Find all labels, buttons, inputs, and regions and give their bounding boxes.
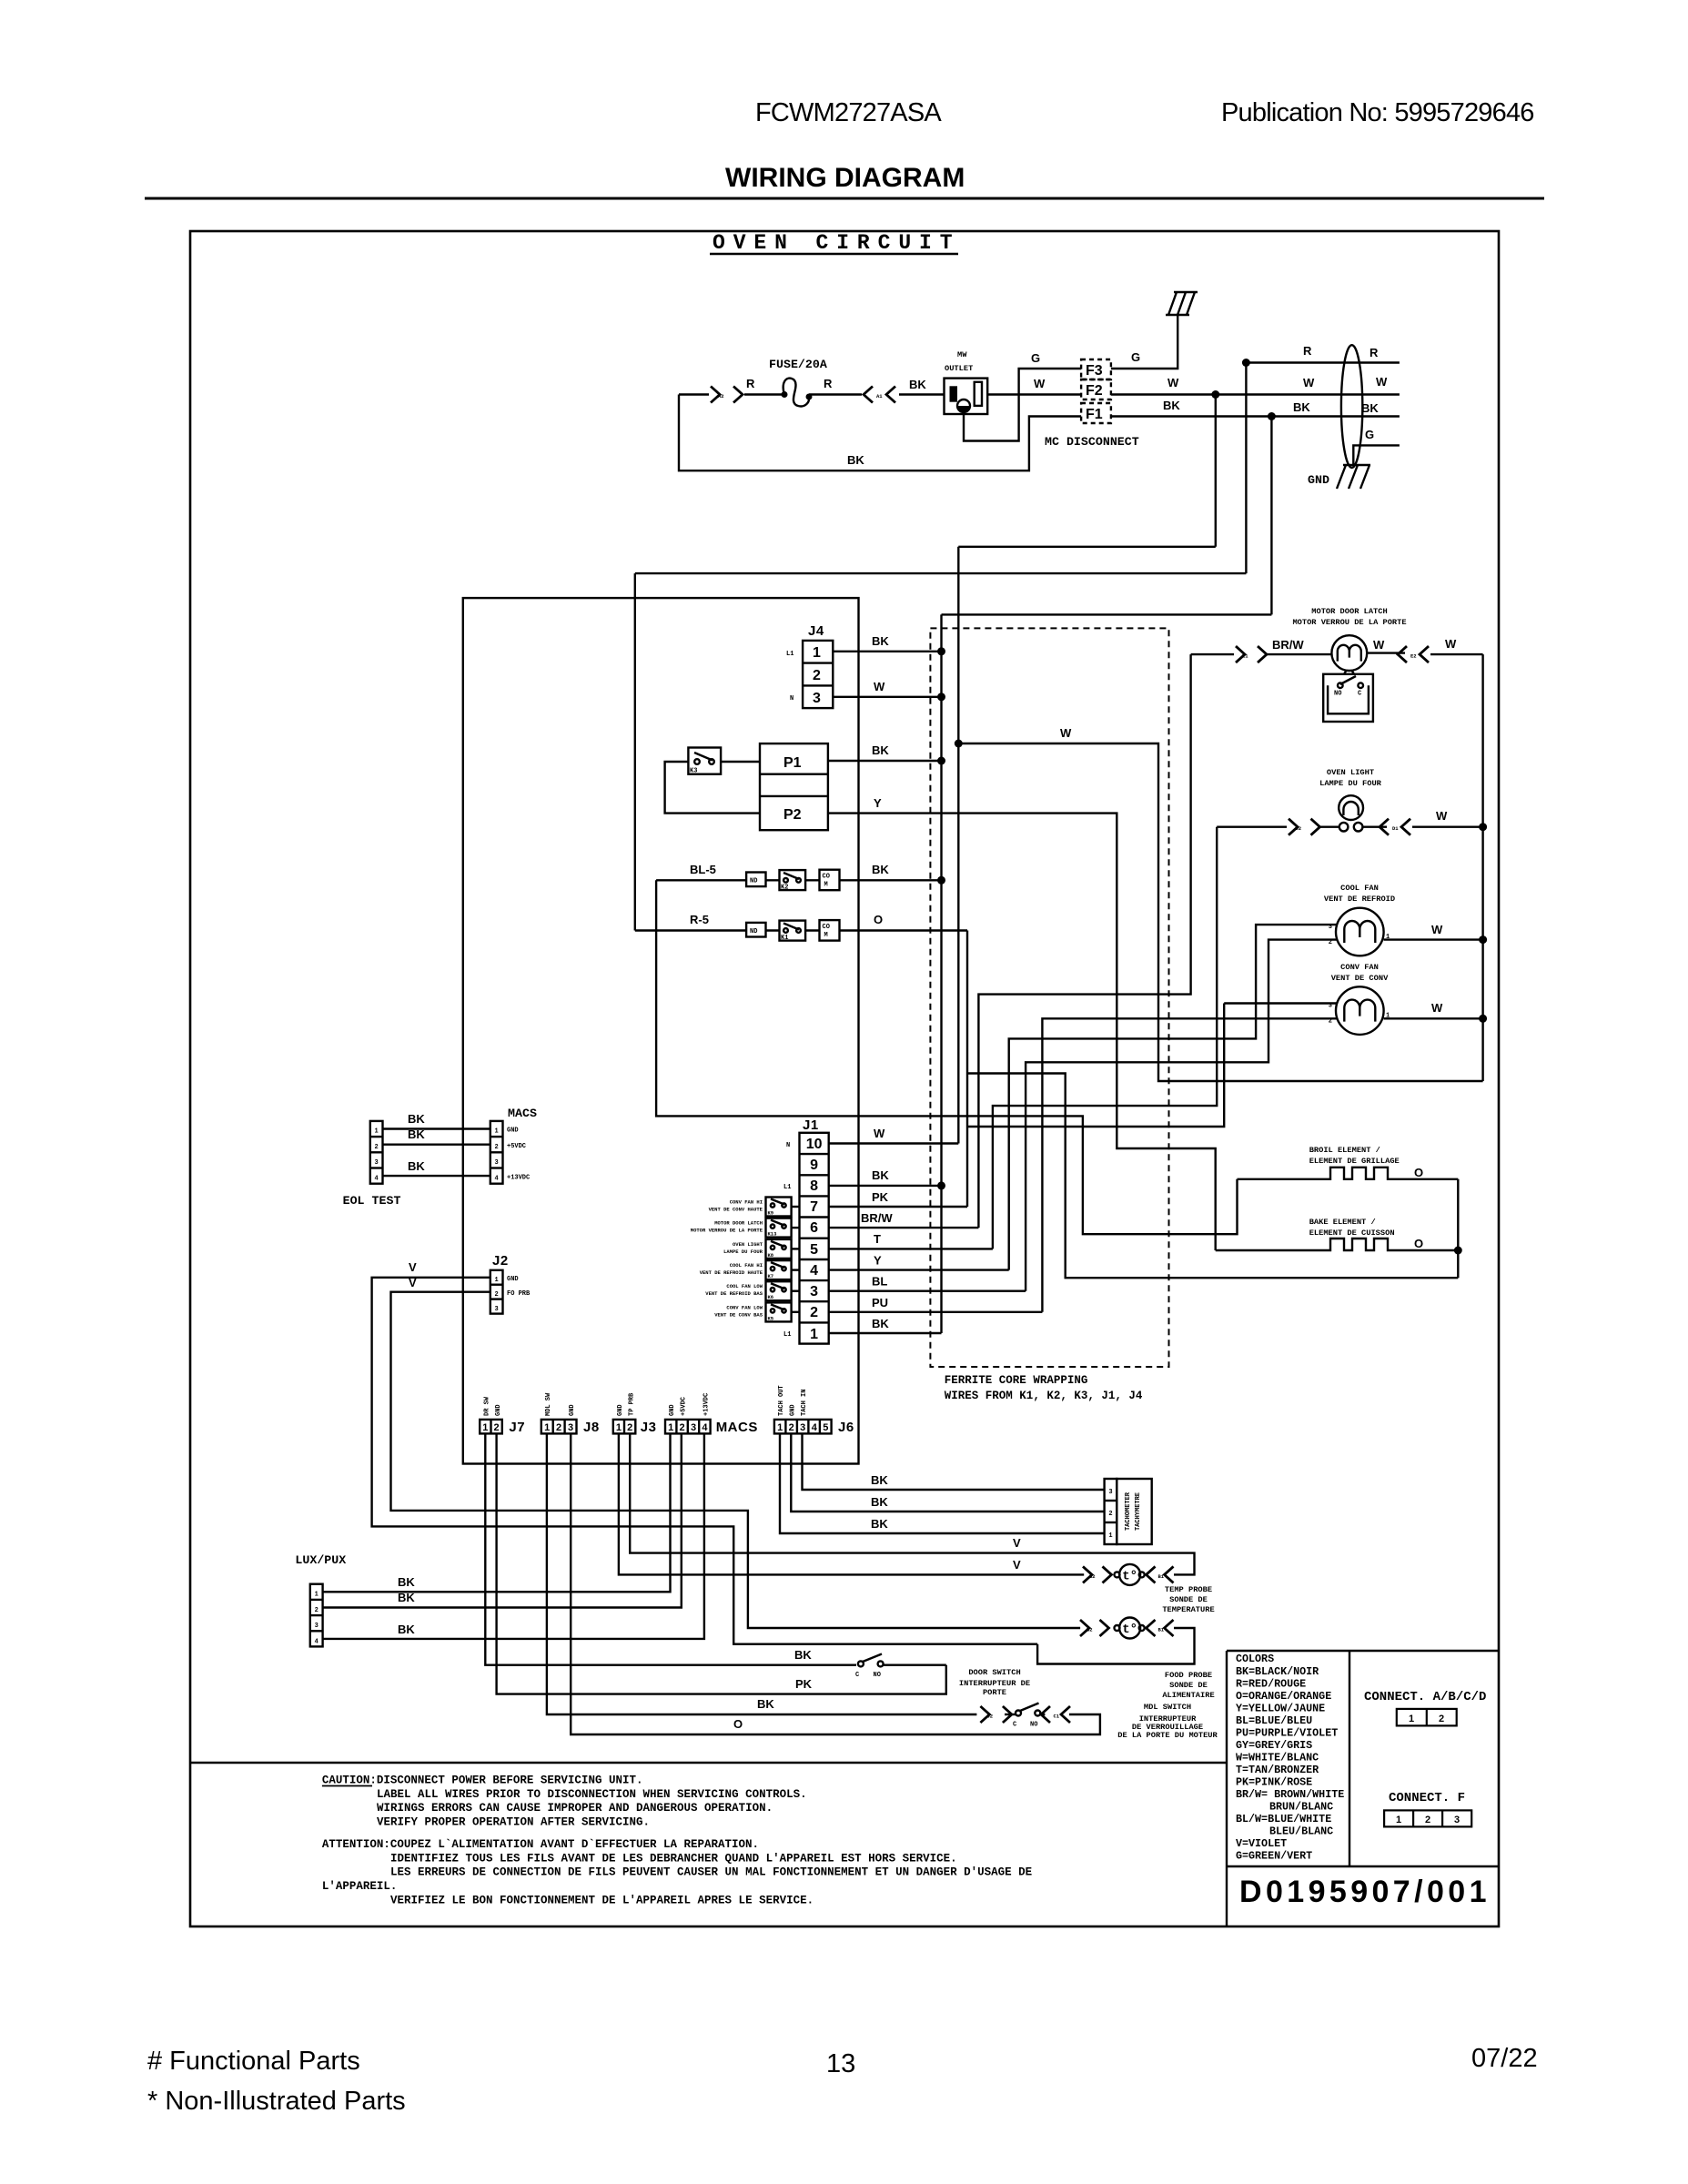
svg-text:BK: BK	[871, 1495, 888, 1509]
svg-text:J2: J2	[492, 1253, 509, 1269]
relay K5	[714, 1302, 799, 1321]
wire fuse to outlet	[809, 393, 945, 395]
svg-text:NO: NO	[1334, 691, 1341, 698]
wire LUX-1 BK	[323, 1433, 671, 1592]
svg-text:WIRES FROM K1, K2, K3, J1, J4: WIRES FROM K1, K2, K3, J1, J4	[945, 1390, 1143, 1402]
svg-text:2: 2	[1425, 1815, 1430, 1825]
svg-text:O=ORANGE/ORANGE: O=ORANGE/ORANGE	[1236, 1690, 1331, 1703]
wire R horizontal from MC	[635, 572, 1247, 574]
svg-text:VENT DE CONV: VENT DE CONV	[1331, 974, 1389, 983]
svg-text:BK: BK	[794, 1648, 812, 1662]
svg-text:GND: GND	[507, 1276, 519, 1283]
wire outlet to F2	[987, 393, 1081, 395]
svg-text:O: O	[1414, 1166, 1423, 1179]
wire PU riser to conv fan 2	[1042, 1018, 1336, 1312]
svg-text:BL: BL	[872, 1275, 887, 1289]
svg-text:C1: C1	[1054, 1714, 1060, 1720]
svg-text:VERIFIEZ LE BON FONCTIONNEMENT: VERIFIEZ LE BON FONCTIONNEMENT DE L'APPA…	[390, 1895, 814, 1907]
bake element	[1216, 1239, 1459, 1250]
chassis ground top	[1166, 292, 1198, 315]
svg-text:VENT DE CONV HAUTE: VENT DE CONV HAUTE	[709, 1207, 763, 1213]
wire J6-3 tach	[803, 1433, 1105, 1490]
svg-text:MOTOR DOOR LATCH: MOTOR DOOR LATCH	[1311, 607, 1387, 616]
wire BK return bottom	[679, 395, 1081, 471]
wire LUX-4 BK	[323, 1433, 704, 1639]
svg-text:N: N	[790, 695, 793, 703]
connector LUX/PUX	[310, 1584, 323, 1647]
wire outlet ground loop to F3	[964, 369, 1081, 441]
MDL switch	[1005, 1704, 1045, 1729]
junction conv fan bus	[1479, 1015, 1487, 1023]
svg-text:C2: C2	[987, 1714, 994, 1720]
junction J4-1	[937, 647, 945, 655]
wire R vertical to R-5	[634, 573, 636, 930]
svg-text:TEMP PROBE: TEMP PROBE	[1165, 1585, 1212, 1594]
svg-text:TP PRB: TP PRB	[628, 1392, 635, 1416]
svg-text:ELEMENT DE CUISSON: ELEMENT DE CUISSON	[1309, 1228, 1395, 1238]
svg-text:TACHYMETRE: TACHYMETRE	[1135, 1492, 1142, 1531]
svg-text:K6: K6	[768, 1294, 774, 1300]
svg-text:FUSE/20A: FUSE/20A	[769, 358, 827, 371]
svg-text:DE LA PORTE DU MOTEUR: DE LA PORTE DU MOTEUR	[1117, 1731, 1218, 1740]
svg-text:LAMPE DU FOUR: LAMPE DU FOUR	[1319, 779, 1382, 788]
svg-text:GND: GND	[790, 1404, 797, 1416]
svg-text:5: 5	[810, 1242, 818, 1258]
oven circuit underline	[710, 253, 958, 255]
svg-text:G=GREEN/VERT: G=GREEN/VERT	[1236, 1850, 1312, 1863]
svg-text:ND: ND	[750, 878, 757, 885]
svg-text:1: 1	[1396, 1815, 1401, 1825]
svg-text:LAMPE DU FOUR: LAMPE DU FOUR	[723, 1249, 763, 1255]
svg-text:PU=PURPLE/VIOLET: PU=PURPLE/VIOLET	[1236, 1727, 1338, 1740]
svg-text:A2: A2	[718, 393, 724, 399]
svg-text:BLEU/BLANC: BLEU/BLANC	[1269, 1825, 1333, 1838]
contact box NO	[746, 923, 765, 937]
svg-text:MACS: MACS	[716, 1420, 758, 1435]
tachometer box	[1117, 1479, 1151, 1544]
svg-text:BK: BK	[872, 634, 889, 648]
wire W node vertical	[957, 547, 959, 1144]
colors box internal divider	[1349, 1651, 1350, 1866]
svg-text:BK: BK	[872, 863, 889, 876]
broil element	[1238, 1168, 1459, 1179]
wire W horizontal from MC	[958, 546, 1216, 548]
fuse box F3	[1081, 359, 1111, 379]
wire W branch	[958, 743, 1482, 1081]
wire J1-2 PU	[829, 1311, 1043, 1313]
wire BK horizontal from MC	[942, 613, 1272, 615]
svg-text:+5VDC: +5VDC	[680, 1397, 687, 1416]
wire door switch NO side	[884, 1663, 946, 1665]
svg-text:CO: CO	[823, 924, 830, 931]
svg-text:4: 4	[374, 1176, 378, 1183]
svg-text:2: 2	[1329, 939, 1332, 946]
wire BL-5 row	[656, 879, 941, 881]
wire EOL row1 BK	[383, 1127, 490, 1129]
svg-text:PK: PK	[872, 1190, 889, 1204]
wire right W bus	[1481, 654, 1483, 1081]
contact box COM	[820, 870, 840, 891]
wire J6-1 tach	[780, 1433, 1105, 1533]
svg-text:1: 1	[544, 1422, 550, 1433]
svg-text:PK=PINK/ROSE: PK=PINK/ROSE	[1236, 1776, 1312, 1789]
SECTION: board	[463, 547, 1459, 1464]
wire R drop to board	[1245, 363, 1247, 574]
svg-text:OVEN LIGHT: OVEN LIGHT	[733, 1241, 763, 1248]
svg-text:+13VDC: +13VDC	[702, 1393, 710, 1416]
motor door latch motor	[1331, 635, 1367, 671]
SECTION: header	[145, 98, 1544, 2116]
svg-text:E1: E1	[1242, 653, 1248, 660]
svg-text:3: 3	[1108, 1489, 1112, 1496]
svg-text:W: W	[1034, 377, 1046, 390]
contact box NO	[746, 873, 765, 887]
connector J3	[613, 1420, 636, 1434]
wire J2-2 V	[391, 1292, 1081, 1628]
wire R	[1246, 361, 1400, 363]
wire K3 left loop to P2	[665, 762, 760, 814]
junction light bus	[1479, 823, 1487, 831]
chassis ground bottom	[1337, 465, 1370, 489]
wire W drop to board	[1215, 395, 1217, 547]
svg-text:7: 7	[810, 1199, 818, 1215]
svg-text:1: 1	[1108, 1532, 1112, 1540]
svg-text:PK: PK	[795, 1677, 813, 1691]
wire J1-10 W	[829, 1142, 959, 1144]
svg-text:BK: BK	[872, 743, 889, 757]
svg-text:W: W	[1167, 376, 1179, 389]
svg-text:N: N	[786, 1142, 790, 1149]
wire latch to E2	[1367, 653, 1482, 655]
wire light D1 to bus	[1362, 826, 1482, 828]
svg-text:L1: L1	[783, 1331, 791, 1339]
svg-text:2: 2	[374, 1144, 378, 1151]
relay K3 box	[688, 748, 721, 775]
svg-text:3: 3	[374, 1159, 378, 1167]
svg-text:2: 2	[494, 1291, 498, 1299]
wire BK drop to board	[1270, 417, 1272, 615]
svg-text:4: 4	[315, 1639, 318, 1646]
svg-text:J7: J7	[509, 1420, 525, 1435]
connector A1	[864, 387, 895, 403]
connector D1	[1380, 819, 1410, 835]
svg-text:MOTOR VERROU DE LA PORTE: MOTOR VERROU DE LA PORTE	[691, 1228, 763, 1234]
svg-text:BL/W=BLUE/WHITE: BL/W=BLUE/WHITE	[1236, 1813, 1331, 1825]
svg-text:LUX/PUX: LUX/PUX	[295, 1553, 346, 1567]
svg-text:L'APPAREIL.: L'APPAREIL.	[322, 1880, 398, 1893]
svg-text:OUTLET: OUTLET	[945, 364, 973, 373]
svg-text:LES ERREURS DE CONNECTION DE F: LES ERREURS DE CONNECTION DE FILS PEUVEN…	[390, 1866, 1032, 1879]
svg-text:COOL FAN LOW: COOL FAN LOW	[726, 1283, 763, 1289]
svg-text:MACS: MACS	[508, 1107, 537, 1120]
svg-text:O: O	[1414, 1237, 1423, 1250]
wire elements common right	[1457, 1179, 1459, 1278]
svg-text:BRUN/BLANC: BRUN/BLANC	[1269, 1801, 1333, 1814]
svg-text:FO PRB: FO PRB	[507, 1290, 531, 1298]
wire J2-1 V	[372, 1278, 1038, 1644]
wire BK from F1	[1111, 415, 1400, 417]
svg-text:V: V	[409, 1276, 417, 1289]
svg-text:O: O	[874, 913, 883, 926]
SECTION: legend	[322, 1653, 1491, 1909]
svg-text:13: 13	[826, 2049, 855, 2078]
svg-text:C: C	[1013, 1722, 1016, 1729]
svg-text:ALIMENTAIRE: ALIMENTAIRE	[1162, 1691, 1214, 1700]
svg-text:ELEMENT DE GRILLAGE: ELEMENT DE GRILLAGE	[1309, 1157, 1400, 1166]
svg-text:WIRING DIAGRAM: WIRING DIAGRAM	[725, 163, 965, 193]
svg-text:V: V	[409, 1260, 417, 1274]
svg-text:C: C	[855, 1672, 859, 1679]
svg-text:10: 10	[806, 1137, 823, 1152]
connector B1	[1147, 1566, 1174, 1582]
svg-text:GND: GND	[495, 1404, 502, 1416]
svg-text:1: 1	[813, 645, 821, 661]
svg-text:B1: B1	[1158, 1573, 1165, 1580]
svg-text:1: 1	[777, 1422, 783, 1433]
svg-text:8: 8	[810, 1178, 818, 1194]
svg-text:W: W	[1376, 375, 1388, 389]
outlet slot filled	[950, 386, 958, 401]
wire Y riser to cool fan 3	[1009, 925, 1338, 1270]
junction J1-8	[937, 1181, 945, 1189]
svg-text:WIRINGS ERRORS CAN CAUSE IMPRO: WIRINGS ERRORS CAN CAUSE IMPROPER AND DA…	[377, 1802, 773, 1815]
svg-text:BK: BK	[1293, 400, 1310, 414]
svg-text:3: 3	[691, 1422, 696, 1433]
svg-text:BK: BK	[398, 1575, 415, 1589]
svg-text:FERRITE CORE WRAPPING: FERRITE CORE WRAPPING	[945, 1374, 1088, 1387]
svg-text:J8: J8	[583, 1420, 600, 1435]
connect abcd pin box	[1397, 1709, 1457, 1726]
svg-text:3: 3	[810, 1284, 818, 1299]
relay K9	[709, 1198, 800, 1217]
connector J8	[541, 1420, 577, 1434]
svg-text:OVEN LIGHT: OVEN LIGHT	[1327, 768, 1374, 777]
wire J6-2 tach	[791, 1433, 1104, 1512]
wire A2 feed	[679, 393, 783, 395]
outer schematic frame	[190, 231, 1499, 1926]
svg-text:2: 2	[813, 668, 821, 683]
svg-text:GND: GND	[617, 1404, 624, 1416]
svg-text:BK: BK	[872, 1317, 889, 1330]
svg-text:L1: L1	[786, 651, 793, 658]
svg-text:COOL FAN HI: COOL FAN HI	[730, 1262, 763, 1269]
svg-text:V: V	[1013, 1558, 1021, 1572]
SECTION: right components	[691, 607, 1487, 1402]
temp probe	[1115, 1564, 1145, 1585]
svg-text:G: G	[1031, 351, 1040, 365]
svg-text:BK: BK	[1361, 401, 1379, 415]
svg-text:V: V	[1013, 1536, 1021, 1550]
relay K1	[780, 921, 806, 942]
wire BL-5 drop	[656, 880, 1237, 1234]
svg-text:T=TAN/BRONZER: T=TAN/BRONZER	[1236, 1764, 1319, 1776]
svg-text:CAUTION:DISCONNECT POWER BEFOR: CAUTION:DISCONNECT POWER BEFORE SERVICIN…	[322, 1774, 643, 1787]
svg-text:Y: Y	[874, 1254, 882, 1268]
svg-text:GY=GREY/GRIS: GY=GREY/GRIS	[1236, 1739, 1312, 1752]
connector B1 food	[1147, 1620, 1174, 1636]
MW outlet box	[945, 379, 988, 414]
connector D1	[1041, 1706, 1070, 1723]
svg-text:TACH IN: TACH IN	[801, 1390, 808, 1416]
svg-text:BK: BK	[1163, 399, 1180, 412]
svg-text:GND: GND	[569, 1404, 576, 1416]
svg-text:EOL TEST: EOL TEST	[343, 1194, 401, 1208]
fuse box F2	[1081, 379, 1111, 399]
wire J3-2 temp probe feed	[630, 1433, 1194, 1574]
svg-text:SONDE DE: SONDE DE	[1169, 1595, 1208, 1604]
svg-text:J1: J1	[803, 1117, 819, 1133]
svg-text:W: W	[1436, 809, 1448, 823]
svg-text:GND: GND	[507, 1127, 519, 1135]
wire J1-3 BL	[829, 1289, 1026, 1291]
svg-text:BK: BK	[871, 1517, 888, 1531]
wire conv fan 3 feed	[1224, 1002, 1338, 1004]
svg-text:+5VDC: +5VDC	[507, 1143, 526, 1150]
svg-text:1: 1	[668, 1422, 673, 1433]
svg-text:P1: P1	[783, 755, 802, 771]
connector A2	[711, 387, 743, 403]
svg-text:G: G	[1365, 428, 1374, 441]
wire J1-8 BK	[829, 1185, 942, 1187]
connect f pin box	[1384, 1810, 1471, 1826]
svg-text:FOOD PROBE: FOOD PROBE	[1165, 1671, 1212, 1680]
contact box COM	[820, 920, 840, 941]
svg-text:4: 4	[494, 1176, 498, 1183]
svg-text:GND: GND	[669, 1404, 676, 1416]
svg-text:BK: BK	[408, 1112, 425, 1126]
wire food probe return	[1037, 1628, 1194, 1664]
svg-text:CO: CO	[823, 874, 830, 881]
svg-text:W: W	[1431, 1001, 1443, 1015]
svg-text:3: 3	[800, 1422, 805, 1433]
connector J6	[774, 1420, 832, 1434]
title underline	[145, 197, 1544, 200]
svg-text:F1: F1	[1086, 407, 1103, 422]
food probe	[1115, 1618, 1145, 1639]
junction R node	[1242, 359, 1250, 367]
wire K3 right to P1	[721, 761, 760, 763]
svg-text:K2: K2	[781, 885, 788, 892]
relay K6	[705, 1281, 799, 1300]
svg-text:L1: L1	[783, 1184, 791, 1191]
cable wrap ellipse	[1341, 345, 1362, 468]
svg-text:NO: NO	[874, 1672, 881, 1679]
svg-text:2: 2	[680, 1422, 685, 1433]
svg-text:OVEN CIRCUIT: OVEN CIRCUIT	[713, 231, 960, 255]
svg-text:MDL SW: MDL SW	[545, 1392, 552, 1416]
wire O drop to elements	[967, 931, 1458, 1279]
svg-text:1: 1	[810, 1327, 818, 1342]
svg-text:MC DISCONNECT: MC DISCONNECT	[1045, 435, 1139, 449]
svg-text:VERIFY PROPER OPERATION AFTER: VERIFY PROPER OPERATION AFTER SERVICING.	[377, 1816, 650, 1829]
svg-text:PORTE: PORTE	[983, 1688, 1006, 1697]
junction J4-3	[937, 693, 945, 701]
svg-text:GND: GND	[1308, 473, 1329, 487]
svg-text:INTERRUPTEUR DE: INTERRUPTEUR DE	[959, 1679, 1030, 1688]
svg-text:G: G	[1131, 350, 1140, 364]
svg-text:* Non-Illustrated Parts: * Non-Illustrated Parts	[147, 2087, 406, 2116]
connector EOL left	[370, 1121, 383, 1184]
svg-text:BROIL ELEMENT /: BROIL ELEMENT /	[1309, 1146, 1380, 1155]
connector B2 food	[1080, 1620, 1109, 1636]
wire R-5 row	[635, 929, 967, 931]
wire P1 BK output	[828, 760, 942, 762]
svg-text:3: 3	[813, 691, 821, 706]
wire T riser to oven light	[993, 827, 1217, 1249]
tachometer connector	[1105, 1479, 1117, 1544]
svg-text:BK: BK	[757, 1697, 774, 1711]
svg-text:BK: BK	[872, 1168, 889, 1182]
svg-text:3: 3	[1329, 1003, 1332, 1010]
svg-text:1: 1	[315, 1592, 318, 1599]
wire J7-1 to door switch	[485, 1433, 856, 1664]
svg-text:2: 2	[1439, 1714, 1444, 1724]
wire EOL row2 BK	[383, 1143, 490, 1145]
fuse box F1	[1081, 403, 1111, 423]
relay K2	[780, 870, 806, 891]
svg-text:Y=YELLOW/JAUNE: Y=YELLOW/JAUNE	[1236, 1703, 1325, 1715]
colors box left edge	[1226, 1651, 1228, 1926]
fuse FUSE/20A	[782, 379, 813, 407]
svg-text:R: R	[1303, 344, 1312, 358]
wire J3-1 temp probe B2	[619, 1433, 1084, 1574]
svg-text:M: M	[824, 882, 828, 889]
wire J4 pin3 W	[833, 696, 941, 698]
connector E2	[1398, 646, 1429, 662]
svg-text:R: R	[1370, 346, 1379, 359]
svg-text:4: 4	[810, 1263, 818, 1279]
svg-text:4: 4	[702, 1422, 708, 1433]
svg-text:MDL SWITCH: MDL SWITCH	[1144, 1703, 1191, 1712]
svg-text:C: C	[1358, 691, 1361, 698]
wire LUX-2 BK	[323, 1433, 682, 1607]
svg-text:SONDE DE: SONDE DE	[1169, 1681, 1208, 1690]
svg-text:3: 3	[494, 1306, 498, 1313]
svg-text:O: O	[733, 1717, 743, 1731]
svg-text:BK: BK	[909, 378, 926, 391]
svg-text:R=RED/ROUGE: R=RED/ROUGE	[1236, 1678, 1306, 1691]
ferrite core dashed box	[930, 628, 1168, 1367]
svg-text:BK: BK	[871, 1473, 888, 1487]
svg-text:5: 5	[823, 1422, 828, 1433]
svg-text:K9: K9	[768, 1210, 774, 1217]
junction P1 BK	[937, 757, 945, 765]
junction elements	[1454, 1247, 1462, 1255]
relay K8	[723, 1239, 799, 1259]
svg-text:MW: MW	[957, 350, 967, 359]
svg-text:1: 1	[494, 1128, 498, 1136]
svg-text:2: 2	[556, 1422, 561, 1433]
svg-text:FCWM2727ASA: FCWM2727ASA	[755, 98, 942, 127]
wire BL riser to cool fan 2	[1026, 940, 1337, 1291]
wire J4 pin1 BK	[833, 651, 941, 652]
connector D2	[1289, 819, 1320, 835]
svg-text:t°: t°	[1122, 1570, 1137, 1584]
svg-text:TACHOMETER: TACHOMETER	[1125, 1491, 1132, 1531]
wire light D2 feed	[1217, 826, 1339, 828]
svg-text:D2: D2	[1296, 825, 1302, 832]
SECTION: power	[679, 292, 1400, 614]
svg-text:W: W	[1373, 638, 1385, 652]
outlet slot open	[975, 382, 982, 406]
svg-text:3: 3	[568, 1422, 573, 1433]
drawing number box top	[1227, 1865, 1499, 1867]
svg-text:NO: NO	[1030, 1722, 1037, 1729]
svg-text:M: M	[824, 932, 828, 939]
svg-text:2: 2	[789, 1422, 794, 1433]
svg-text:BR/W= BROWN/WHITE: BR/W= BROWN/WHITE	[1236, 1788, 1344, 1801]
svg-text:R: R	[824, 377, 833, 390]
